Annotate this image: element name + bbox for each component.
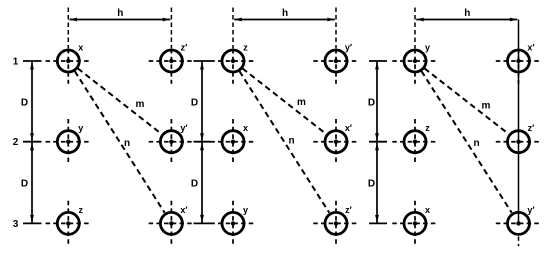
hole circle x p1 row1 left xyxy=(46,43,91,84)
svg-text:D: D xyxy=(368,179,375,190)
svg-text:3: 3 xyxy=(13,219,19,230)
extension line left column p1 xyxy=(67,8,69,49)
svg-text:D: D xyxy=(21,97,28,108)
hole circle z p2 row1 left xyxy=(210,43,255,84)
svg-text:y′: y′ xyxy=(180,123,187,133)
dimension h line p1 xyxy=(70,8,171,21)
dimension D line p3 xyxy=(375,61,379,223)
svg-text:D: D xyxy=(21,179,28,190)
hole circle x′ p3 row1 right xyxy=(496,43,541,84)
svg-text:m: m xyxy=(136,99,145,110)
dimension h line p2 xyxy=(234,8,335,21)
dimension h line p3 xyxy=(416,8,517,21)
extension line right column p1 xyxy=(170,8,172,49)
svg-text:z′: z′ xyxy=(528,123,535,133)
svg-text:D: D xyxy=(191,97,198,108)
D dimension ticks p1 xyxy=(23,61,42,223)
svg-text:x′: x′ xyxy=(180,205,187,215)
D dimension ticks p2 xyxy=(194,61,211,223)
svg-text:D: D xyxy=(368,97,375,108)
hole circle x′ p2 row2 right xyxy=(313,119,358,164)
dashed line n p2 xyxy=(239,71,329,213)
svg-text:z: z xyxy=(79,205,84,215)
svg-text:1: 1 xyxy=(13,57,19,68)
svg-text:x: x xyxy=(78,43,83,53)
svg-text:D: D xyxy=(191,179,198,190)
svg-text:y′: y′ xyxy=(345,43,352,53)
hole circle y′ p1 row2 right xyxy=(149,119,194,164)
dashed line n p3 xyxy=(421,71,511,213)
svg-text:n: n xyxy=(473,138,479,149)
svg-text:n: n xyxy=(288,136,294,147)
svg-text:y: y xyxy=(243,205,248,215)
dimension D line p1 xyxy=(30,61,34,223)
crosshair tail below bottom-right circle p3 xyxy=(518,236,520,246)
hole circle x p2 row2 left xyxy=(210,119,255,164)
svg-text:z′: z′ xyxy=(345,205,352,215)
hole circle y′ p2 row1 right xyxy=(313,43,358,84)
svg-text:y: y xyxy=(78,123,83,133)
dashed line m p1 xyxy=(78,68,162,134)
hole circle y′ p3 row3 right xyxy=(496,205,541,235)
svg-text:m: m xyxy=(482,101,491,112)
svg-text:y′: y′ xyxy=(527,205,534,215)
svg-text:m: m xyxy=(297,97,306,108)
hole circle x p3 row3 left xyxy=(392,201,437,246)
hole circle y p2 row3 left xyxy=(210,201,255,246)
hole circle z p1 row3 left xyxy=(46,201,91,246)
hole circle x′ p1 row3 right xyxy=(149,201,194,246)
svg-text:2: 2 xyxy=(13,137,19,148)
hole circle z′ p3 row2 right xyxy=(496,123,541,153)
svg-text:h: h xyxy=(117,8,123,19)
svg-text:z′: z′ xyxy=(181,43,188,53)
svg-text:x′: x′ xyxy=(345,123,352,133)
hole circle z′ p1 row1 right xyxy=(149,43,194,84)
extension line left column p3 xyxy=(414,8,416,49)
D dimension ticks p3 xyxy=(369,61,387,223)
extension line left column p2 xyxy=(232,8,234,49)
svg-text:z: z xyxy=(243,43,248,53)
dashed line m p3 xyxy=(424,68,508,134)
dimension D line p2 xyxy=(200,61,204,223)
extension line right column p2 xyxy=(335,8,337,49)
svg-text:x′: x′ xyxy=(527,43,534,53)
svg-text:h: h xyxy=(282,8,288,19)
svg-text:y: y xyxy=(425,43,430,53)
hole circle z′ p2 row3 right xyxy=(313,201,358,246)
svg-text:h: h xyxy=(464,8,470,19)
svg-text:n: n xyxy=(124,138,130,149)
svg-text:x: x xyxy=(243,123,248,133)
svg-text:z: z xyxy=(425,123,430,133)
hole circle y p3 row1 left xyxy=(392,43,437,84)
dashed line n p1 xyxy=(75,71,165,213)
extension line right column p3 (solid, runs down through circles) xyxy=(518,20,520,225)
dashed line m p2 xyxy=(242,68,326,134)
hole circle z p3 row2 left xyxy=(392,119,437,164)
svg-text:x: x xyxy=(425,205,430,215)
hole circle y p1 row2 left xyxy=(46,119,91,164)
